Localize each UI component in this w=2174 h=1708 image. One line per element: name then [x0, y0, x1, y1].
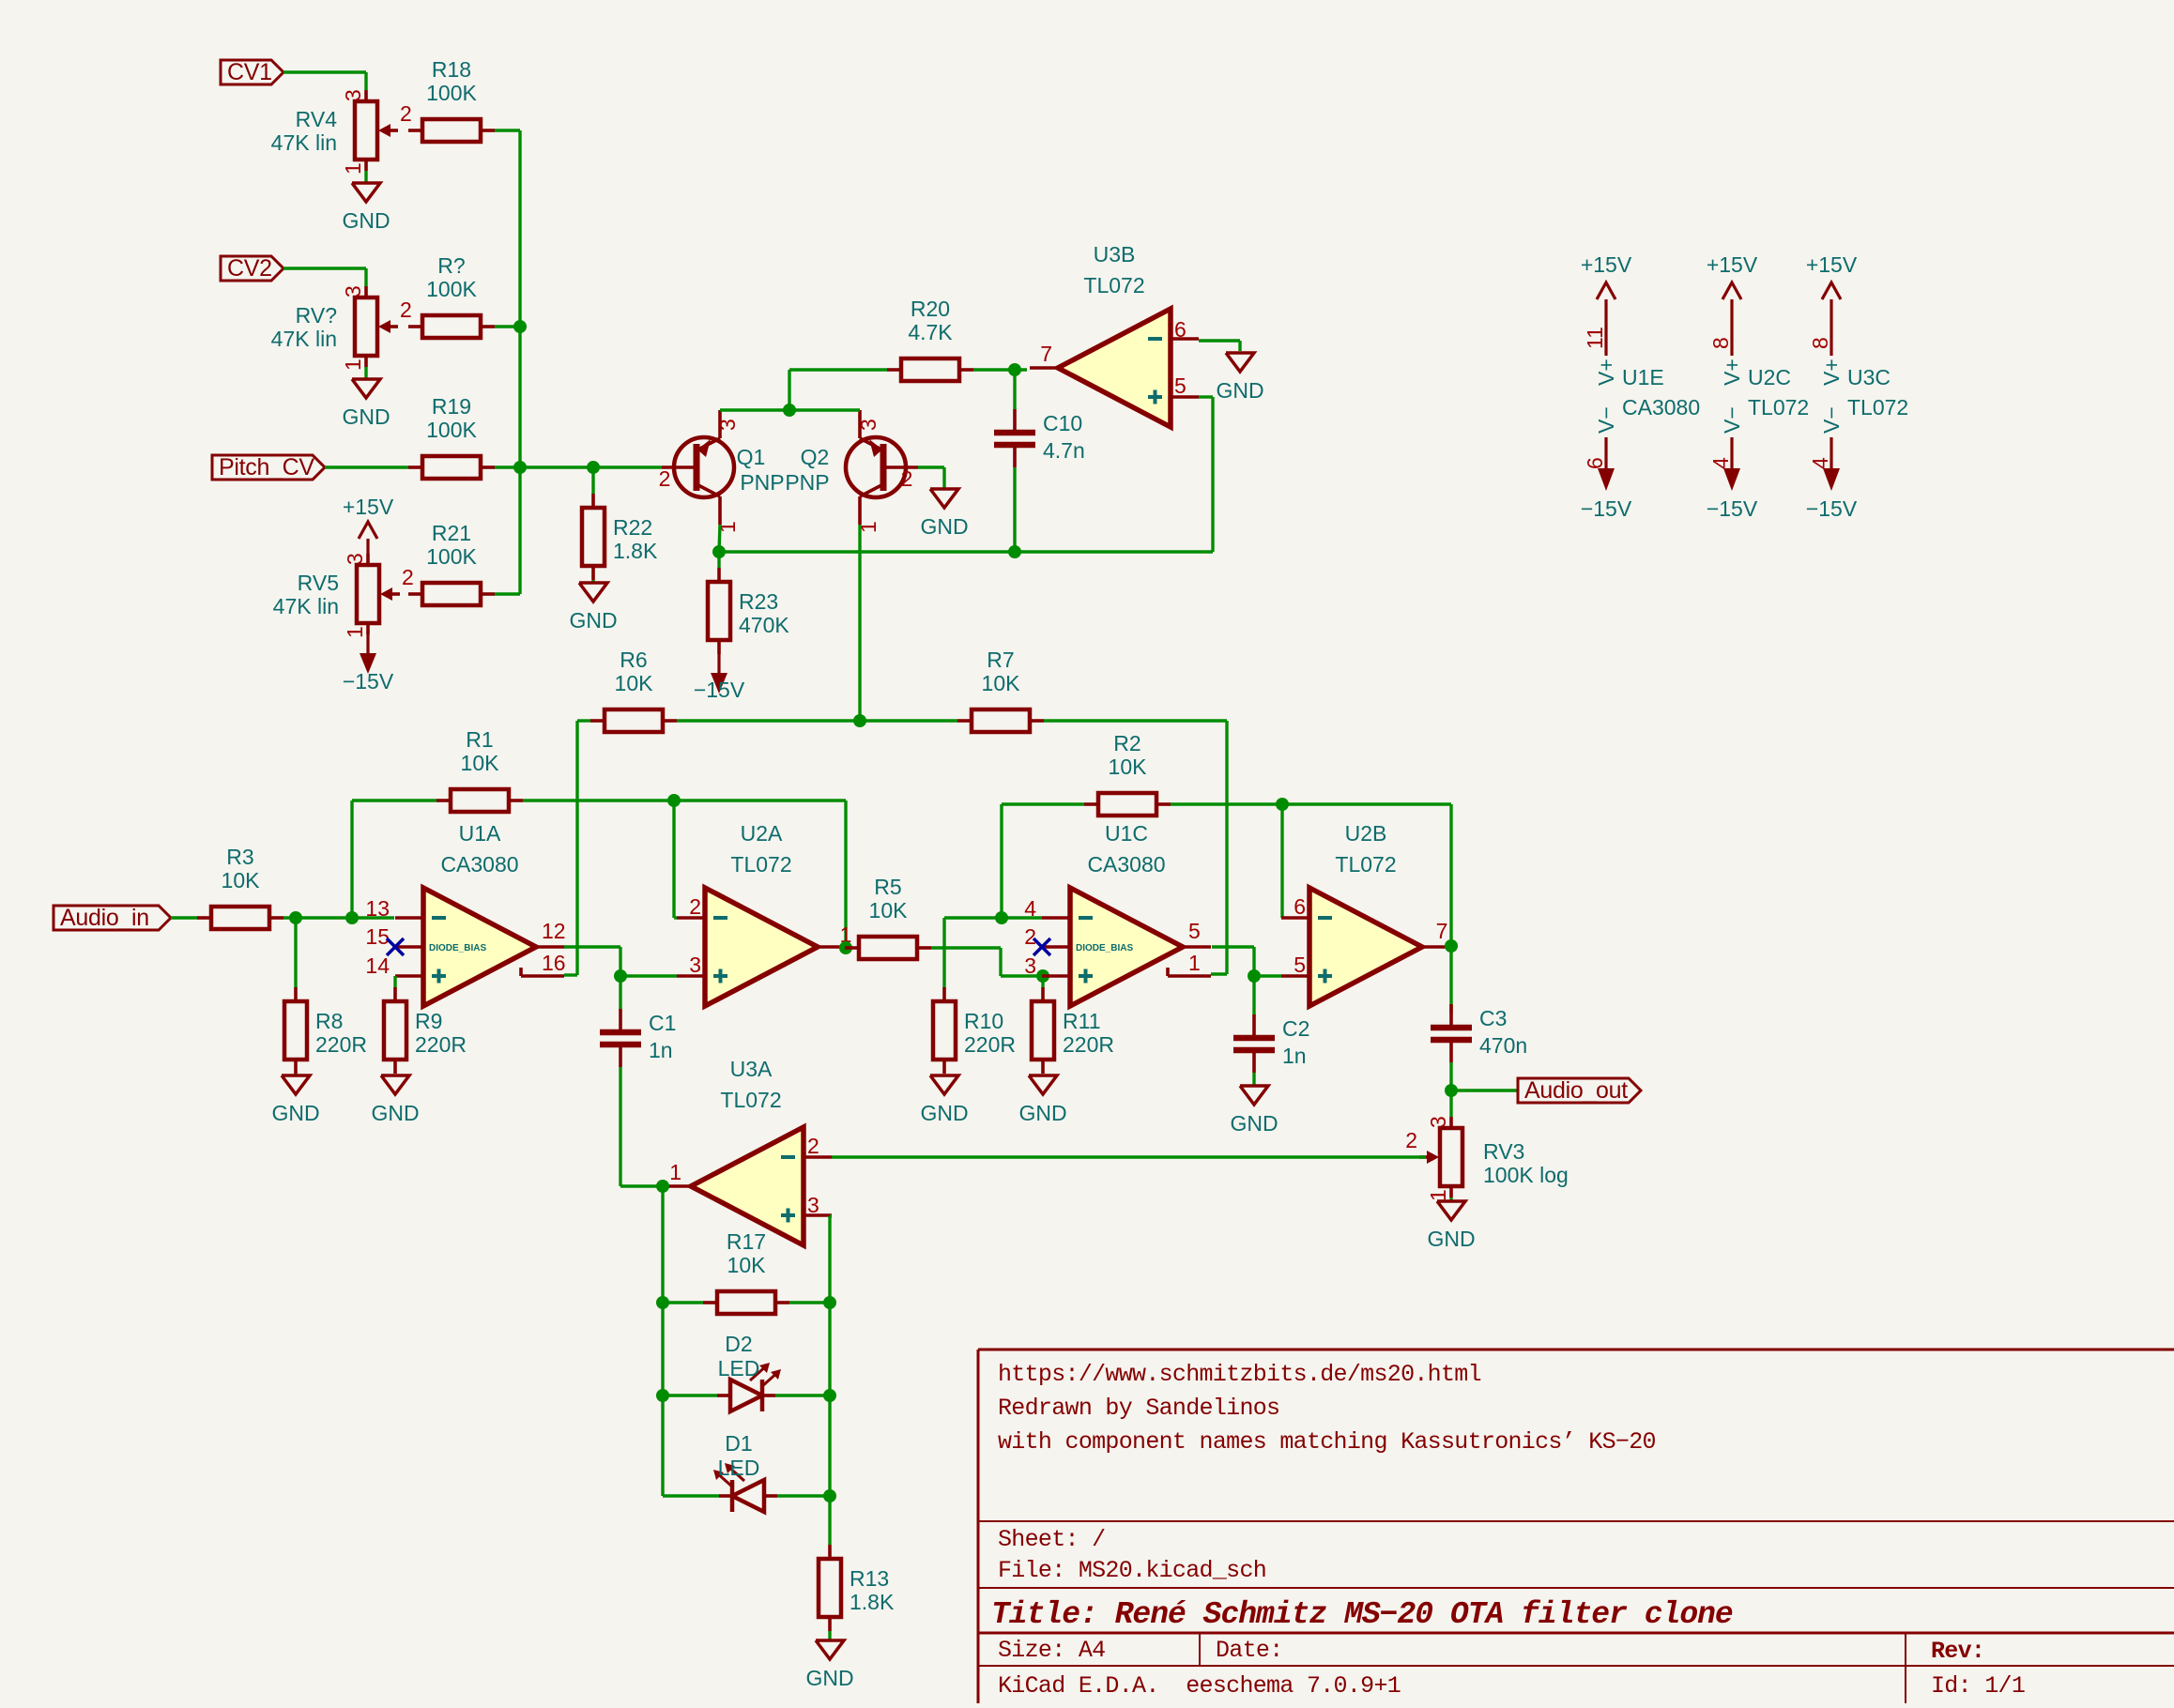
svg-text:R21: R21 [432, 521, 471, 545]
node Audio_out [1445, 1084, 1458, 1097]
svg-text:TL072: TL072 [1335, 852, 1396, 877]
resistor R9 [384, 987, 467, 1074]
ground [1018, 1075, 1066, 1125]
svg-text:1: 1 [341, 162, 365, 175]
svg-text:DIODE_BIAS: DIODE_BIAS [1076, 943, 1133, 953]
wire R17 right [789, 1301, 830, 1304]
resistor R2 [1084, 731, 1171, 816]
svg-text:1.8K: 1.8K [613, 539, 658, 563]
svg-text:with component names matching: with component names matching Kassutroni… [998, 1428, 1656, 1456]
svg-text:Id: 1/1: Id: 1/1 [1931, 1672, 2025, 1700]
wire to R8 [294, 918, 297, 988]
node Q2 collector [853, 714, 866, 727]
svg-text:LED: LED [718, 1356, 760, 1380]
svg-text:220R: 220R [964, 1032, 1016, 1057]
wire to U2A pin3 [620, 974, 677, 977]
power +15V [343, 495, 394, 554]
transistor Q1 PNP [662, 410, 734, 525]
wire U1C out [1212, 947, 1254, 976]
node R22 / base [587, 461, 600, 474]
op-amp U2A TL072 [677, 821, 846, 1006]
wire U3A pin3 down [830, 1216, 832, 1496]
wire to R9 [393, 976, 396, 988]
resistor R6 [590, 648, 677, 732]
svg-text:KiCad E.D.A. eeschema 7.0.9+1: KiCad E.D.A. eeschema 7.0.9+1 [998, 1672, 1401, 1700]
svg-text:C10: C10 [1043, 411, 1082, 435]
svg-text:+15V: +15V [1707, 252, 1758, 277]
svg-text:R1: R1 [466, 727, 493, 752]
wire to R13 [828, 1496, 831, 1545]
svg-text:GND: GND [1427, 1227, 1475, 1251]
ground [342, 183, 390, 233]
svg-text:U1E: U1E [1622, 365, 1664, 389]
svg-text:R13: R13 [850, 1566, 889, 1591]
node R17 left [656, 1296, 669, 1309]
svg-text:10K: 10K [727, 1253, 767, 1277]
resistor R13 [819, 1545, 895, 1631]
svg-text:13: 13 [365, 896, 390, 921]
svg-text:LED: LED [718, 1456, 760, 1480]
node U2B out [1445, 939, 1458, 953]
wire R? to CV bus [495, 325, 520, 328]
potentiometer RV5 [273, 553, 414, 638]
svg-text:V+: V+ [1720, 358, 1744, 386]
wire R6 to R7 [677, 719, 957, 722]
potentiometer RV? [271, 285, 412, 371]
svg-text:U1C: U1C [1105, 821, 1148, 846]
svg-text:V+: V+ [1819, 358, 1844, 386]
svg-text:+15V: +15V [1581, 252, 1632, 277]
wire R2 left down [1002, 804, 1084, 918]
wire U3A pin2 to RV3 wiper [832, 1155, 1426, 1158]
svg-text:V+: V+ [1594, 358, 1618, 386]
svg-text:TL072: TL072 [1748, 395, 1809, 419]
svg-text:220R: 220R [315, 1032, 367, 1057]
svg-text:GND: GND [805, 1666, 853, 1690]
svg-text:Audio_out: Audio_out [1524, 1077, 1628, 1104]
node emitters [783, 404, 796, 417]
svg-text:220R: 220R [1063, 1032, 1114, 1057]
svg-text:−15V: −15V [1581, 496, 1632, 521]
svg-text:1: 1 [1426, 1189, 1450, 1201]
svg-text:PNP: PNP [785, 470, 829, 495]
wire CV2 to RV? [283, 268, 366, 286]
wire RV5 pin1 [366, 633, 369, 635]
power pins U2C [1707, 252, 1809, 521]
ground [569, 583, 617, 633]
wire emitters to R20 [789, 370, 887, 410]
svg-text:1: 1 [1188, 951, 1201, 975]
svg-text:8: 8 [1808, 337, 1832, 349]
svg-text:4.7n: 4.7n [1043, 438, 1085, 463]
wire R5 to U1C pin3 [931, 948, 1043, 976]
svg-text:+15V: +15V [1806, 252, 1858, 277]
svg-text:1: 1 [341, 358, 365, 371]
svg-text:100K: 100K [426, 81, 477, 105]
svg-text:C3: C3 [1479, 1006, 1507, 1030]
svg-text:CA3080: CA3080 [1087, 852, 1165, 877]
wire Pitch_CV to R19 [325, 465, 408, 468]
w [1041, 976, 1044, 988]
no-connect [387, 938, 404, 955]
ground [805, 1640, 853, 1690]
wire to D2 [663, 1394, 717, 1396]
node R17 right [823, 1296, 836, 1309]
wire to C1 [619, 976, 621, 1009]
svg-text:220R: 220R [415, 1032, 467, 1057]
node C10 top [1008, 363, 1021, 376]
w [1252, 1073, 1255, 1086]
wire to Audio_out [1451, 1089, 1518, 1091]
svg-text:R8: R8 [315, 1009, 343, 1033]
capacitor C3 [1431, 1004, 1527, 1062]
svg-text:3: 3 [341, 285, 365, 297]
svg-text:−15V: −15V [694, 678, 745, 702]
svg-text:R9: R9 [415, 1009, 442, 1033]
svg-text:GND: GND [1216, 378, 1263, 403]
svg-text:TL072: TL072 [730, 852, 791, 877]
wire to U2B pin5 [1254, 974, 1281, 977]
svg-text:2: 2 [402, 565, 414, 589]
power pins U1E [1581, 252, 1700, 521]
svg-text:U1A: U1A [459, 821, 501, 846]
svg-text:10K: 10K [461, 751, 500, 775]
svg-text:Redrawn by Sandelinos: Redrawn by Sandelinos [998, 1395, 1279, 1422]
wire R19 to Q1 base [495, 465, 662, 468]
svg-text:U3C: U3C [1847, 365, 1891, 389]
svg-text:8: 8 [1708, 337, 1733, 349]
svg-text:GND: GND [920, 514, 968, 539]
svg-text:DIODE_BIAS: DIODE_BIAS [429, 943, 486, 953]
svg-text:U3B: U3B [1094, 242, 1136, 267]
svg-text:7: 7 [1040, 342, 1052, 366]
svg-text:470K: 470K [739, 613, 789, 637]
net label Audio_out [1518, 1077, 1641, 1104]
svg-text:5: 5 [1294, 953, 1306, 977]
op-amp U2B TL072 [1281, 821, 1450, 1006]
svg-text:3: 3 [715, 419, 740, 431]
svg-text:R5: R5 [874, 875, 901, 899]
resistor R3 [197, 845, 283, 929]
wire D2 right [775, 1394, 830, 1396]
wire Q2 base to GND [918, 467, 944, 489]
power pins U3C [1806, 252, 1908, 521]
wire C1 to U3A [620, 1067, 663, 1186]
op-amp U1C CA3080 [1042, 821, 1211, 1006]
wire Q1 collector [719, 525, 720, 552]
svg-text:GND: GND [1230, 1111, 1278, 1136]
resistor R1 [436, 727, 523, 812]
svg-text:R18: R18 [432, 57, 471, 82]
wire R1 left down [352, 801, 436, 918]
node R13 [823, 1489, 836, 1502]
LED D2 [717, 1363, 781, 1411]
svg-text:3: 3 [807, 1193, 819, 1217]
svg-text:GND: GND [342, 404, 390, 429]
svg-text:U2B: U2B [1345, 821, 1387, 846]
svg-text:6: 6 [1583, 457, 1607, 469]
svg-text:6: 6 [1174, 317, 1187, 342]
node U3A in [656, 1180, 669, 1193]
wire R22 to GND [591, 580, 594, 583]
svg-text:2: 2 [400, 101, 412, 126]
resistor R17 [703, 1229, 789, 1314]
ground [342, 379, 390, 429]
wire Audio_in to R3 [171, 916, 197, 919]
svg-text:TL072: TL072 [720, 1088, 781, 1112]
wire U3B pin6 to GND [1199, 341, 1240, 351]
wire R2 right to U2B out [1171, 804, 1451, 946]
wire to R23 [717, 552, 720, 568]
ground [371, 1075, 419, 1125]
svg-text:GND: GND [920, 1101, 968, 1125]
svg-text:1n: 1n [649, 1038, 673, 1062]
svg-text:1.8K: 1.8K [850, 1590, 895, 1614]
svg-text:R20: R20 [911, 297, 950, 321]
svg-text:Rev:: Rev: [1931, 1638, 1984, 1665]
resistor R18 [408, 57, 495, 142]
svg-text:R17: R17 [727, 1229, 766, 1254]
node CV bus / pitch [513, 461, 527, 474]
node U2A out [839, 941, 852, 954]
svg-text:10K: 10K [222, 868, 261, 892]
svg-text:File: MS20.kicad_sch: File: MS20.kicad_sch [998, 1557, 1266, 1584]
svg-text:3: 3 [856, 419, 880, 431]
svg-text:1: 1 [669, 1160, 681, 1184]
svg-text:2: 2 [659, 466, 671, 491]
wire Q1-Q2 emitters [720, 408, 860, 411]
wire R20 to U3B out [973, 368, 1027, 371]
node R1/U2A- [667, 794, 681, 807]
svg-text:R19: R19 [432, 394, 471, 419]
svg-text:R3: R3 [226, 845, 253, 869]
svg-text:RV5: RV5 [298, 571, 339, 595]
svg-text:GND: GND [371, 1101, 419, 1125]
svg-text:R6: R6 [620, 648, 647, 672]
capacitor C2 [1233, 1014, 1309, 1073]
svg-text:Date:: Date: [1216, 1637, 1283, 1664]
wire down to U2A pin2 [674, 801, 677, 918]
svg-text:GND: GND [569, 608, 617, 633]
svg-text:GND: GND [1018, 1101, 1066, 1125]
svg-text:6: 6 [1294, 894, 1306, 919]
node R1 [345, 911, 359, 924]
svg-text:Q2: Q2 [801, 445, 830, 469]
svg-text:R23: R23 [739, 589, 778, 614]
node D2 right [823, 1389, 836, 1402]
node C10 bottom [1008, 545, 1021, 558]
wire R3 to U1A [283, 916, 394, 919]
svg-text:U2A: U2A [741, 821, 783, 846]
svg-text:1: 1 [343, 626, 367, 638]
svg-text:RV3: RV3 [1483, 1139, 1524, 1164]
svg-text:V−: V− [1819, 406, 1844, 434]
svg-text:2: 2 [1024, 924, 1036, 949]
svg-text:11: 11 [1583, 327, 1607, 349]
node Q1/R23 [712, 545, 726, 558]
wire into C10 [1013, 370, 1016, 409]
op-amp U3A TL072 [663, 1057, 832, 1245]
ground [920, 489, 968, 539]
potentiometer RV4 [271, 89, 412, 175]
svg-text:4: 4 [1024, 896, 1036, 921]
net label CV1 [221, 59, 283, 85]
svg-text:470n: 470n [1479, 1033, 1527, 1058]
title block frame [978, 1350, 2174, 1703]
wire U3B pin5 down [1199, 397, 1213, 552]
node C1 [614, 969, 627, 983]
svg-text:3: 3 [343, 553, 367, 565]
svg-text:−15V: −15V [1707, 496, 1758, 521]
node U2B pin6 [1276, 798, 1289, 811]
svg-text:CV1: CV1 [227, 59, 272, 85]
svg-text:R10: R10 [964, 1009, 1003, 1033]
resistor R? [408, 253, 495, 338]
resistor R5 [845, 875, 931, 959]
net label CV2 [221, 255, 283, 282]
svg-text:2: 2 [901, 466, 913, 491]
svg-text:4: 4 [1708, 457, 1733, 469]
wire base node to R22 [591, 467, 594, 494]
wire Q2 collector to R6/R7 row [858, 525, 861, 721]
resistor R7 [957, 648, 1044, 732]
w [828, 1631, 831, 1640]
svg-text:2: 2 [1405, 1128, 1417, 1152]
LED D1 [713, 1463, 777, 1512]
svg-text:5: 5 [1188, 919, 1201, 943]
svg-text:+15V: +15V [343, 495, 394, 519]
svg-text:12: 12 [542, 919, 566, 943]
svg-text:16: 16 [542, 951, 566, 975]
node R2 fb [995, 911, 1008, 924]
ground [1216, 353, 1263, 403]
svg-text:5: 5 [1174, 374, 1187, 398]
svg-text:3: 3 [1426, 1116, 1450, 1128]
power -15V [343, 634, 394, 694]
wire R10 to U1C pin4 [944, 918, 1042, 989]
svg-text:Pitch_CV: Pitch_CV [219, 454, 314, 480]
resistor R21 [408, 521, 495, 605]
potentiometer RV3 [1405, 1116, 1569, 1201]
svg-text:R7: R7 [987, 648, 1014, 672]
wire RV4 to GND [364, 171, 367, 183]
svg-text:10K: 10K [869, 898, 909, 923]
svg-text:47K lin: 47K lin [271, 327, 337, 351]
capacitor C1 [600, 1009, 676, 1067]
svg-text:D2: D2 [725, 1332, 752, 1356]
svg-text:V−: V− [1594, 406, 1618, 434]
ground [1427, 1201, 1475, 1251]
svg-text:C2: C2 [1282, 1016, 1309, 1041]
wire R6 left [577, 719, 590, 722]
svg-text:1n: 1n [1282, 1044, 1307, 1068]
svg-text:−15V: −15V [343, 669, 394, 694]
svg-text:2: 2 [400, 297, 412, 322]
resistor R10 [933, 987, 1016, 1074]
resistor R22 [582, 494, 658, 580]
svg-text:14: 14 [365, 953, 390, 978]
wire R7 to U1C pin1 [1044, 721, 1227, 974]
node R8 [289, 911, 302, 924]
svg-text:15: 15 [365, 924, 390, 949]
svg-text:R22: R22 [613, 515, 652, 540]
op-amp U3B TL072 [1030, 242, 1199, 427]
svg-text:4.7K: 4.7K [908, 320, 953, 344]
resistor R8 [284, 987, 367, 1074]
svg-text:2: 2 [807, 1134, 819, 1158]
svg-text:PNP: PNP [740, 470, 784, 495]
wire to D1 [663, 1494, 719, 1497]
title block text [991, 1361, 2025, 1700]
wire CV1 to RV4 [283, 72, 366, 90]
capacitor C10 [994, 409, 1085, 467]
wire D1 right [777, 1494, 830, 1497]
wire R21 to CV bus [495, 592, 520, 595]
resistor R11 [1032, 987, 1114, 1074]
wire R1 right to U2A out [523, 801, 846, 948]
op-amp U1A CA3080 [395, 821, 564, 1006]
resistor R23 [708, 568, 789, 654]
svg-text:GND: GND [342, 208, 390, 233]
svg-text:TL072: TL072 [1083, 273, 1144, 297]
wire U1C pin1 link [1211, 972, 1227, 975]
svg-text:CA3080: CA3080 [1622, 395, 1700, 419]
svg-text:3: 3 [1024, 953, 1036, 978]
svg-text:100K: 100K [426, 418, 477, 442]
resistor R19 [408, 394, 495, 479]
svg-text:100K: 100K [426, 544, 477, 569]
svg-text:10K: 10K [1109, 755, 1148, 779]
resistor R20 [887, 297, 973, 381]
transistor Q2 PNP [846, 410, 918, 525]
wire to U2B pin6 [1280, 804, 1283, 918]
node C2 [1248, 969, 1261, 983]
svg-text:7: 7 [1436, 919, 1448, 943]
wire to R17 [663, 1301, 703, 1304]
svg-text:R11: R11 [1063, 1009, 1101, 1033]
svg-text:U3A: U3A [730, 1057, 773, 1081]
svg-text:CA3080: CA3080 [440, 852, 518, 877]
node R11 [1036, 969, 1049, 983]
net label Pitch_CV [212, 454, 325, 480]
wire U2B out down [1449, 946, 1452, 1014]
svg-text:V−: V− [1720, 406, 1744, 434]
wire U3A in down [661, 1186, 664, 1496]
wire to C2 [1252, 976, 1255, 1015]
svg-text:100K log: 100K log [1483, 1163, 1569, 1187]
ground [920, 1075, 968, 1125]
w [294, 1074, 297, 1075]
w [1449, 1197, 1452, 1201]
svg-text:100K: 100K [426, 277, 477, 301]
ground [271, 1075, 319, 1125]
svg-text:D1: D1 [725, 1431, 752, 1456]
svg-text:RV?: RV? [296, 303, 337, 328]
wire R18 to CV bus [495, 130, 520, 594]
svg-text:3: 3 [689, 953, 701, 977]
svg-text:C1: C1 [649, 1011, 676, 1035]
svg-text:Title: René Schmitz MS−20 OTA: Title: René Schmitz MS−20 OTA filter clo… [991, 1597, 1733, 1632]
svg-text:2: 2 [689, 894, 701, 919]
wire R6 to U1A pin16 [564, 721, 577, 975]
wire C3 to RV3 [1449, 1062, 1452, 1117]
svg-text:3: 3 [341, 89, 365, 101]
svg-text:TL072: TL072 [1847, 395, 1908, 419]
svg-text:10K: 10K [615, 671, 654, 695]
svg-text:Size: A4: Size: A4 [998, 1637, 1105, 1664]
svg-text:RV4: RV4 [296, 107, 338, 131]
svg-text:Audio_in: Audio_in [60, 905, 149, 931]
